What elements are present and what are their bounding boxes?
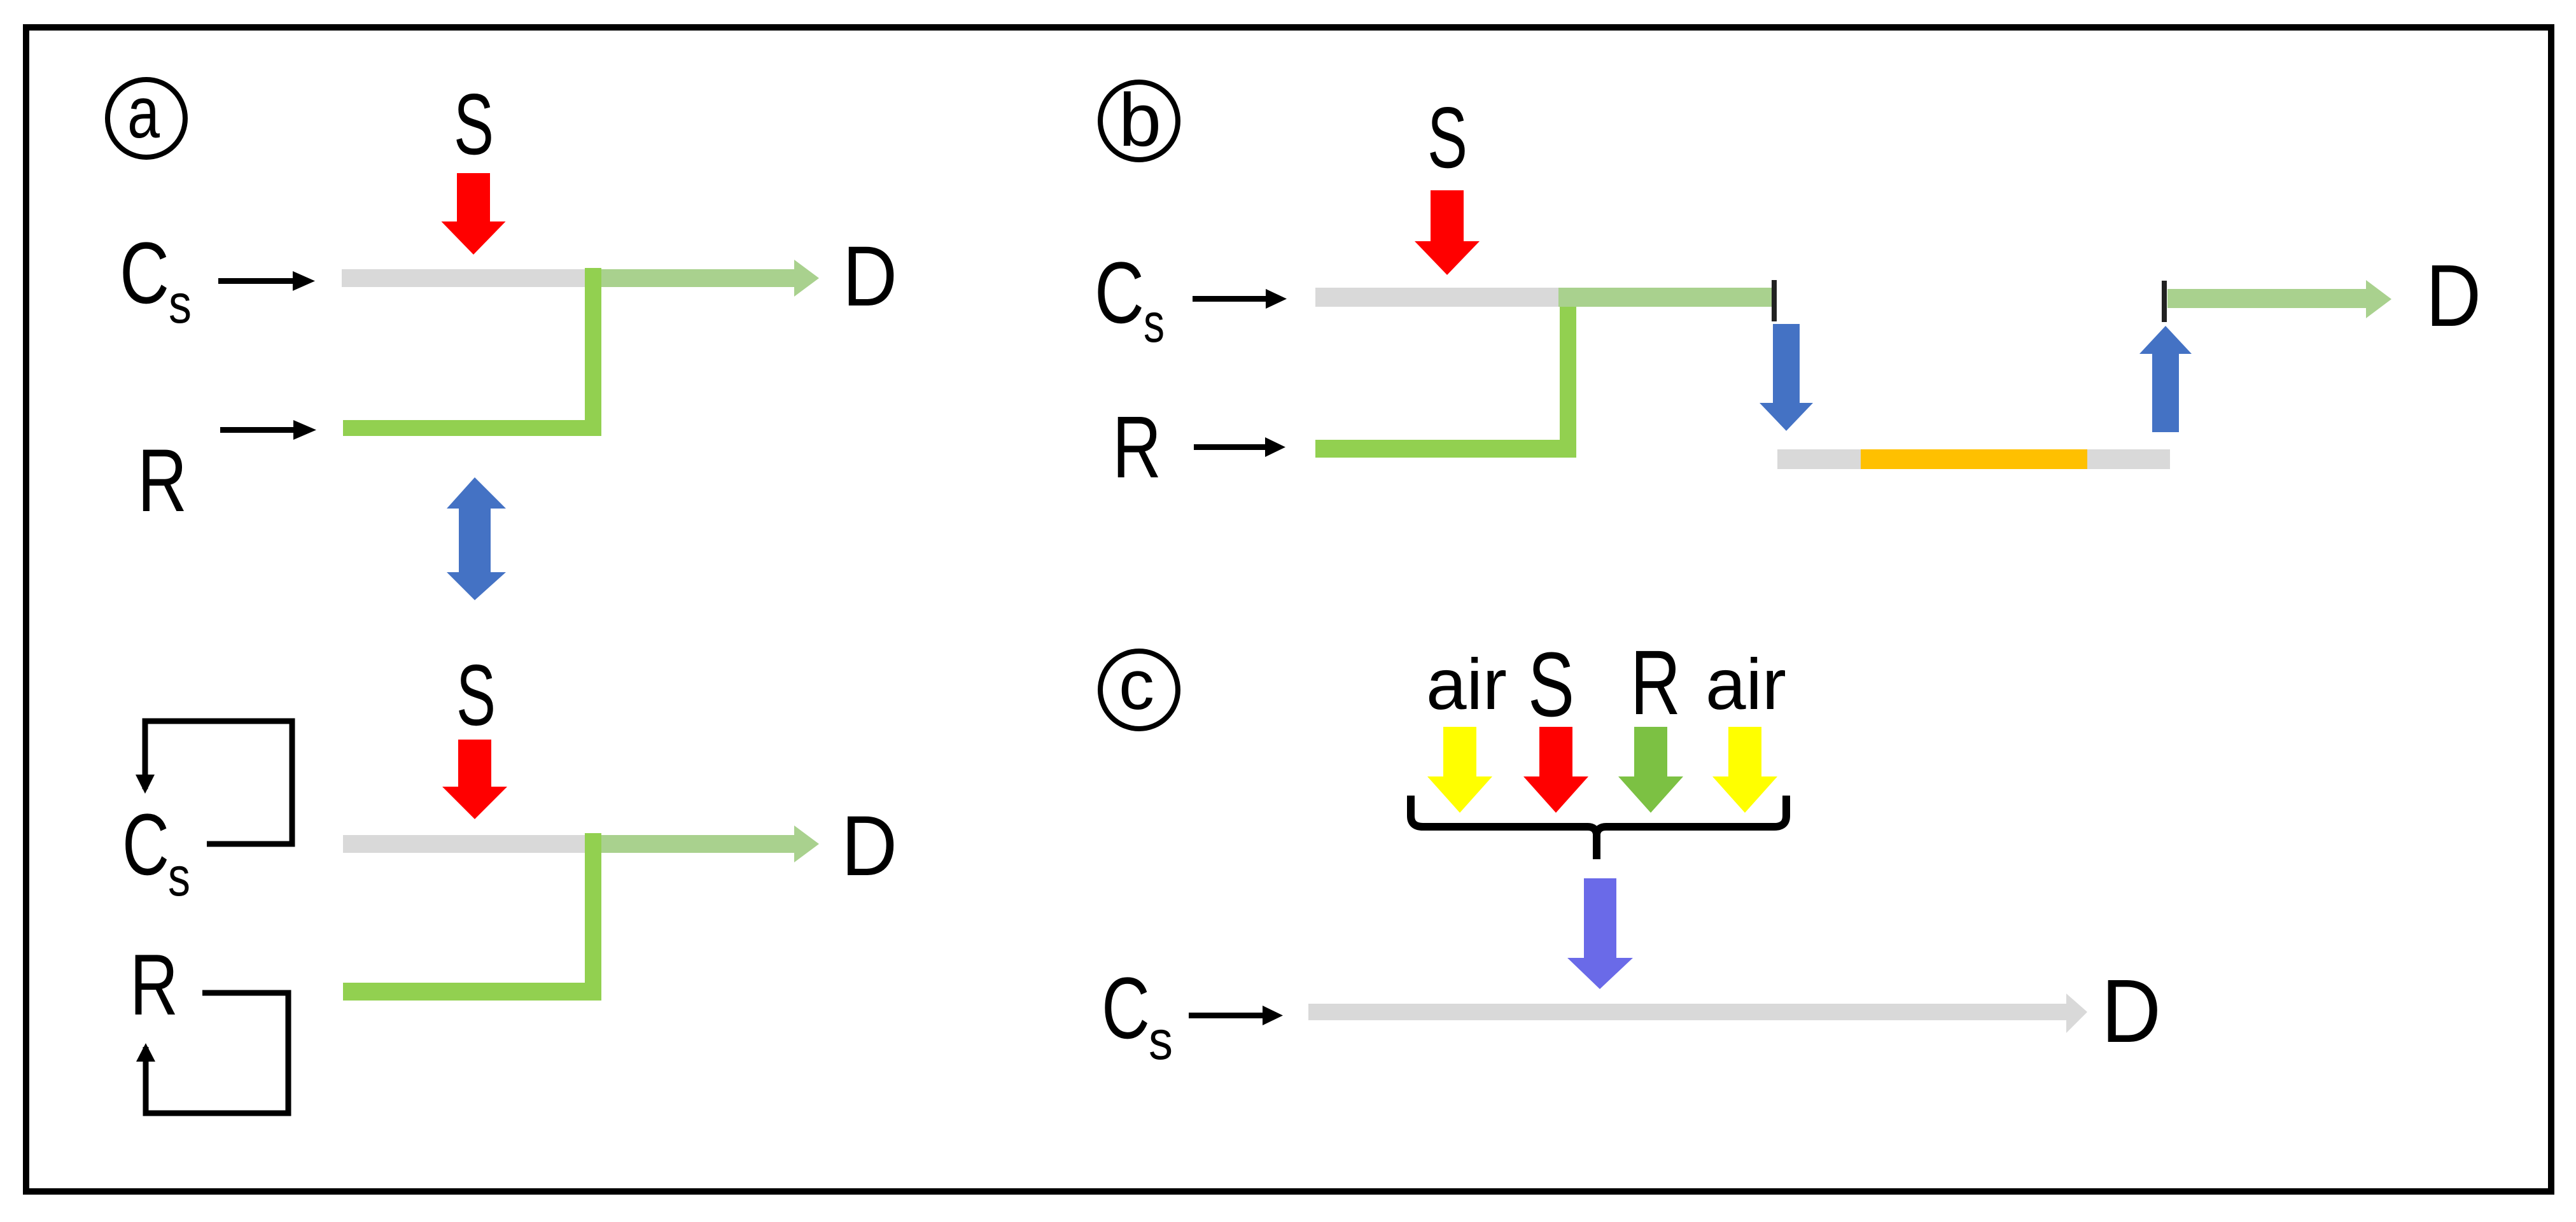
red arrow S injection (panel a top) — [442, 173, 506, 255]
red arrow S injection (panel a bottom) — [442, 740, 507, 819]
yellow arrow air left (panel c) — [1427, 727, 1492, 813]
red arrow S (panel c) — [1523, 727, 1588, 813]
light green arrow to D (panel a bottom) — [601, 835, 794, 853]
grey column segment Cs (panel a bottom) — [343, 835, 585, 853]
grey column segment Cs (panel b) — [1315, 288, 1558, 307]
green R line (panel a bottom) — [343, 983, 601, 1001]
svg-text:C: C — [1102, 960, 1150, 1057]
svg-text:s: s — [168, 846, 190, 908]
svg-text:C: C — [122, 796, 169, 894]
svg-text:S: S — [454, 76, 494, 172]
orange trap section (panel b) — [1861, 449, 2087, 469]
black brace (panel c) — [1411, 796, 1597, 859]
svg-text:R: R — [130, 936, 178, 1033]
light green arrow to D (panel b) — [2167, 289, 2366, 308]
svg-text:S: S — [1427, 89, 1467, 186]
svg-text:s: s — [1149, 1010, 1173, 1071]
panel label circle c — [1100, 651, 1178, 729]
svg-text:C: C — [120, 225, 169, 322]
svg-text:S: S — [456, 647, 496, 743]
black tick valve 2 (panel b) — [2162, 281, 2167, 322]
yellow arrow air right (panel c) — [1712, 727, 1777, 813]
svg-text:R: R — [1630, 631, 1681, 734]
svg-text:D: D — [2101, 960, 2161, 1061]
svg-text:s: s — [169, 274, 192, 335]
black arrow Cs inlet (panel b) — [1193, 296, 1266, 302]
black arrow Cs inlet (panel c) — [1189, 1013, 1263, 1018]
green vertical connector (panel a top) — [585, 268, 601, 436]
grey trap bar (panel b) — [1777, 449, 2170, 469]
black arrow R inlet (panel a top) — [220, 427, 294, 433]
svg-text:D: D — [841, 799, 897, 894]
blue double-headed arrow swap (panel a) — [447, 477, 506, 600]
black arrow Cs inlet (panel a top) — [218, 278, 293, 284]
svg-text:C: C — [1095, 244, 1144, 342]
black loop Cs recirculation (panel a bottom) — [145, 721, 292, 844]
svg-text:D: D — [2426, 247, 2481, 345]
light green arrow to D (panel a top) — [601, 269, 794, 287]
light green bar after junction (panel b) — [1558, 288, 1772, 307]
svg-text:R: R — [137, 430, 187, 530]
green vertical connector (panel b) — [1560, 307, 1576, 458]
blue down arrow (panel b) — [1760, 324, 1813, 431]
svg-text:S: S — [1528, 633, 1574, 736]
black loop R arrowhead — [136, 1043, 155, 1062]
green R line (panel a top) — [343, 420, 601, 436]
violet arrow combined flow (panel c) — [1567, 878, 1633, 989]
svg-text:R: R — [1112, 398, 1161, 496]
svg-text:air: air — [1705, 644, 1786, 724]
black arrow R inlet (panel b) — [1194, 444, 1265, 450]
panel label circle a — [108, 80, 185, 157]
red arrow S injection (panel b) — [1415, 190, 1480, 275]
panel label circle b — [1100, 82, 1178, 160]
svg-text:b: b — [1119, 78, 1161, 162]
svg-text:c: c — [1119, 646, 1154, 724]
grey arrow column to D (panel c) — [1308, 1004, 2066, 1020]
black loop R recirculation (panel a bottom) — [146, 993, 288, 1113]
blue up arrow (panel b) — [2139, 326, 2192, 432]
black tick valve 1 (panel b) — [1772, 280, 1777, 321]
green vertical connector (panel a bottom) — [585, 833, 601, 1000]
svg-text:a: a — [127, 73, 160, 153]
green R line (panel b) — [1315, 440, 1576, 458]
svg-text:s: s — [1144, 293, 1165, 354]
black loop Cs arrowhead — [136, 775, 155, 794]
green arrow R (panel c) — [1618, 727, 1683, 813]
svg-text:D: D — [843, 229, 897, 324]
svg-text:air: air — [1426, 644, 1507, 724]
grey column segment Cs (panel a top) — [342, 269, 585, 287]
